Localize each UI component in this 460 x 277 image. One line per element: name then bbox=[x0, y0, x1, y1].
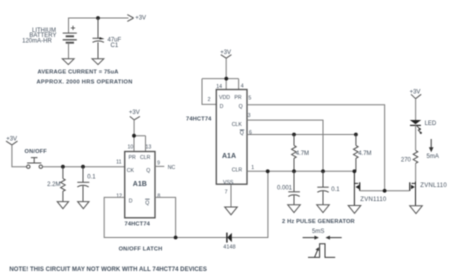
svg-text:ON/OFF LATCH: ON/OFF LATCH bbox=[119, 246, 163, 252]
wire battery top rail to +3V arrow bbox=[69, 18, 129, 33]
pulse waveform bbox=[308, 244, 335, 258]
wire switch to A1B pin 11 bbox=[43, 166, 125, 168]
pin 5 label bbox=[248, 96, 251, 102]
label +3V above A1B bbox=[129, 110, 140, 116]
label 74HCT74 left of A1A bbox=[186, 116, 212, 122]
svg-text:1: 1 bbox=[251, 165, 254, 171]
wire +3V stem to A1A bracket bbox=[202, 58, 239, 104]
label 5mS bbox=[312, 229, 324, 235]
svg-text:+3V: +3V bbox=[220, 50, 231, 56]
svg-text:ZVN1110: ZVN1110 bbox=[360, 197, 387, 203]
label 74HCT74 under A1B bbox=[125, 221, 151, 227]
pulse width arrow right bbox=[303, 236, 319, 240]
note bottom bbox=[9, 267, 206, 273]
svg-text:12: 12 bbox=[116, 194, 122, 200]
svg-text:D: D bbox=[129, 198, 133, 204]
pin 11 label bbox=[116, 160, 121, 166]
resistor 4.7M second bbox=[354, 135, 359, 172]
label CK bbox=[127, 168, 135, 174]
svg-text:0.1: 0.1 bbox=[87, 175, 96, 181]
svg-text:ZVNL110: ZVNL110 bbox=[420, 183, 447, 189]
flip-flop A1A box bbox=[216, 90, 247, 185]
svg-text:2 Hz PULSE GENERATOR: 2 Hz PULSE GENERATOR bbox=[282, 219, 355, 225]
pin 9 label bbox=[157, 161, 160, 167]
label Qbar (A1A) bbox=[240, 130, 244, 137]
pulse width arrow left bbox=[325, 236, 341, 240]
label 0.001 bbox=[277, 186, 293, 192]
label 0.1 pulse generator bbox=[331, 187, 340, 193]
node latch bottom junction bbox=[174, 236, 178, 240]
wire pin 1 (CLR) line bbox=[247, 170, 354, 172]
svg-text:2.2M: 2.2M bbox=[47, 182, 60, 188]
svg-text:Q: Q bbox=[240, 131, 244, 137]
transistor Q1 ZVN1110 bbox=[354, 171, 359, 205]
label Qbar (A1B) bbox=[145, 199, 149, 206]
svg-text:+3V: +3V bbox=[6, 136, 17, 142]
switch S1 ON/OFF pushbutton bbox=[27, 158, 43, 169]
svg-text:APPROX. 2000 HRS OPERATION: APPROX. 2000 HRS OPERATION bbox=[37, 80, 133, 86]
label +3V top-left bbox=[135, 15, 146, 21]
rising edge arrow bbox=[315, 247, 319, 257]
node CLR/latch junction bbox=[266, 169, 270, 173]
node battery/C1 top junction bbox=[96, 16, 100, 20]
node junction at 2.2M bbox=[61, 165, 65, 169]
svg-text:A1B: A1B bbox=[133, 181, 147, 188]
label 270 bbox=[401, 158, 412, 164]
svg-text:4.7M: 4.7M bbox=[358, 151, 371, 157]
label 0.1 bbox=[87, 175, 96, 181]
ground below C1 bbox=[92, 59, 104, 65]
wire pin 7 to ground bbox=[230, 184, 232, 207]
label 5mA bbox=[427, 154, 439, 160]
svg-text:5mS: 5mS bbox=[312, 229, 324, 235]
node A1A bracket junction bbox=[224, 77, 228, 81]
label ON/OFF LATCH bbox=[119, 246, 163, 252]
pin 12 label bbox=[116, 194, 122, 200]
svg-text:CK: CK bbox=[127, 168, 135, 174]
svg-text:5mA: 5mA bbox=[427, 154, 439, 160]
label +3V far-left bbox=[6, 136, 17, 142]
svg-text:4: 4 bbox=[241, 84, 244, 90]
resistor 4.7M first bbox=[292, 135, 297, 172]
svg-text:+3V: +3V bbox=[129, 110, 140, 116]
svg-text:11: 11 bbox=[116, 160, 121, 166]
wire pin 3 (CLK) down bbox=[247, 120, 323, 171]
svg-text:4148: 4148 bbox=[223, 244, 235, 250]
label D (A1A) bbox=[220, 104, 224, 110]
pin 14 label bbox=[216, 84, 222, 90]
svg-text:VDD: VDD bbox=[219, 95, 230, 101]
capacitor 0.001 bbox=[288, 171, 300, 205]
svg-text:2: 2 bbox=[208, 97, 211, 103]
ground below 0.001 bbox=[288, 205, 301, 213]
label 47uF C1 bbox=[108, 38, 122, 50]
current arrow 5mA bbox=[429, 139, 434, 152]
ground below 0.1 pulse generator bbox=[317, 205, 330, 213]
wire pin 5 (Q) to gate node bbox=[247, 105, 385, 191]
svg-text:LED: LED bbox=[425, 121, 437, 127]
ground below Q2 bbox=[410, 206, 423, 214]
node R1 top bbox=[292, 133, 296, 137]
wire LED to resistor bbox=[415, 125, 417, 150]
battery B1 bbox=[63, 26, 77, 43]
svg-text:74HCT74: 74HCT74 bbox=[125, 221, 151, 227]
label ON/OFF bbox=[25, 149, 48, 155]
label ZVNL110 bbox=[420, 183, 447, 189]
label CLR (A1A) bbox=[232, 168, 243, 174]
svg-text:270: 270 bbox=[401, 158, 412, 164]
svg-text:Q: Q bbox=[239, 104, 243, 110]
svg-text:Q: Q bbox=[146, 168, 150, 174]
svg-text:VSS: VSS bbox=[223, 180, 234, 186]
label CLK bbox=[232, 122, 243, 128]
pin 1 label bbox=[251, 165, 254, 171]
pin 13 label bbox=[146, 145, 152, 151]
label VDD bbox=[219, 95, 230, 101]
svg-text:+3V: +3V bbox=[135, 15, 146, 21]
svg-text:NC: NC bbox=[168, 165, 176, 171]
power arrow +3V above LED bbox=[411, 94, 421, 98]
svg-text:Q: Q bbox=[145, 201, 149, 207]
label VSS bbox=[223, 180, 234, 186]
label NC bbox=[168, 165, 176, 171]
pin 8 label bbox=[157, 194, 160, 200]
pin 2 label bbox=[208, 97, 211, 103]
node A1B bracket junction bbox=[132, 134, 136, 138]
note average current bbox=[38, 70, 119, 76]
wire +3V stem to A1B PR/CLR bracket bbox=[134, 120, 146, 152]
note approx hours bbox=[37, 80, 133, 86]
node CLR/C2 junction bbox=[292, 169, 296, 173]
svg-text:CLK: CLK bbox=[232, 122, 243, 128]
node gate junction bbox=[383, 189, 387, 193]
svg-text:A1A: A1A bbox=[222, 153, 236, 160]
svg-text:10: 10 bbox=[128, 145, 134, 151]
svg-text:ON/OFF: ON/OFF bbox=[25, 149, 48, 155]
label LED bbox=[425, 121, 437, 127]
svg-text:0.1: 0.1 bbox=[331, 187, 340, 193]
wire pin 6 (Qbar) to resistors bbox=[247, 134, 356, 136]
ground below Q1 bbox=[348, 206, 361, 214]
label +3V above A1A bbox=[220, 50, 231, 56]
pin 4 label bbox=[241, 84, 244, 90]
resistor 270 bbox=[413, 150, 418, 163]
label LITHIUM BATTERY 120mA-HR bbox=[22, 28, 56, 45]
label PR (A1A) bbox=[234, 95, 241, 101]
node CLR/C3 junction bbox=[321, 169, 325, 173]
label ZVN1110 bbox=[360, 197, 387, 203]
label 4.7M second bbox=[358, 151, 371, 157]
ground below battery bbox=[62, 59, 74, 65]
svg-text:D: D bbox=[220, 104, 224, 110]
wire Q1 gate line bbox=[360, 190, 410, 192]
transistor Q2 ZVNL110 bbox=[410, 182, 416, 206]
svg-text:5: 5 bbox=[248, 96, 251, 102]
label A1A bbox=[222, 153, 236, 160]
svg-text:NOTE! THIS CIRCUIT MAY NOT WOR: NOTE! THIS CIRCUIT MAY NOT WORK WITH ALL… bbox=[9, 267, 206, 273]
pin 9 stub wire bbox=[155, 165, 164, 167]
wire +3V to LED bbox=[415, 99, 417, 120]
label +3V above LED bbox=[410, 90, 421, 96]
label 2 Hz PULSE GENERATOR bbox=[282, 219, 355, 225]
capacitor C1 47uF bbox=[93, 18, 105, 59]
svg-text:4.7M: 4.7M bbox=[296, 151, 309, 157]
resistor 2.2M bbox=[61, 167, 66, 202]
svg-text:0.001: 0.001 bbox=[277, 186, 293, 192]
svg-text:C1: C1 bbox=[111, 43, 119, 49]
label D (A1B) bbox=[129, 198, 133, 204]
wire battery bottom lead bbox=[68, 43, 70, 59]
LED D2 bbox=[410, 120, 422, 134]
ground below 2.2M bbox=[57, 202, 68, 209]
svg-text:CLR: CLR bbox=[140, 155, 151, 161]
svg-text:PR: PR bbox=[129, 155, 136, 161]
pin 7 label bbox=[225, 189, 228, 195]
power arrow +3V above A1A bbox=[221, 55, 232, 59]
power arrow +3V far-left bbox=[6, 141, 18, 145]
svg-text:AVERAGE CURRENT = 75uA: AVERAGE CURRENT = 75uA bbox=[38, 70, 119, 76]
wire pin 12 loop (D) bbox=[104, 171, 268, 237]
svg-text:120mA-HR: 120mA-HR bbox=[22, 39, 52, 45]
node R2 top bbox=[354, 133, 358, 137]
label Q (A1A) bbox=[239, 104, 243, 110]
label CLR bbox=[140, 155, 151, 161]
svg-text:9: 9 bbox=[157, 161, 160, 167]
svg-text:13: 13 bbox=[146, 145, 152, 151]
label Q (A1B) bbox=[146, 168, 150, 174]
ground below A1A bbox=[225, 207, 238, 215]
svg-text:74HCT74: 74HCT74 bbox=[186, 116, 212, 122]
power arrow +3V top-left bbox=[127, 15, 133, 22]
capacitor 0.1 pulse generator bbox=[317, 171, 328, 205]
svg-text:+3V: +3V bbox=[410, 90, 421, 96]
label PR bbox=[129, 155, 136, 161]
node junction at 0.1 cap bbox=[81, 165, 85, 169]
node CLR/Q1 drain junction bbox=[353, 169, 357, 173]
pin 3 label bbox=[248, 113, 251, 119]
svg-text:3: 3 bbox=[248, 113, 251, 119]
pin 10 label bbox=[128, 145, 134, 151]
pin 6 label bbox=[249, 130, 252, 136]
wire +3V stem to switch bbox=[12, 145, 27, 167]
svg-text:CLR: CLR bbox=[232, 168, 243, 174]
svg-text:7: 7 bbox=[225, 189, 228, 195]
capacitor 0.1 (switch debounce) bbox=[77, 167, 89, 202]
wire resistor to Q2 drain bbox=[415, 163, 417, 181]
label 2.2M bbox=[47, 182, 60, 188]
svg-text:8: 8 bbox=[157, 194, 160, 200]
diode 4148 bbox=[227, 233, 232, 243]
wire pin 8 drop (Qbar) bbox=[155, 197, 176, 237]
flip-flop A1B box bbox=[125, 152, 155, 218]
label 4148 bbox=[223, 244, 235, 250]
power arrow +3V above A1B bbox=[130, 116, 140, 120]
ground below 0.1 bbox=[78, 202, 89, 209]
label A1B bbox=[133, 181, 147, 188]
svg-text:PR: PR bbox=[234, 95, 241, 101]
label 4.7M first bbox=[296, 151, 309, 157]
